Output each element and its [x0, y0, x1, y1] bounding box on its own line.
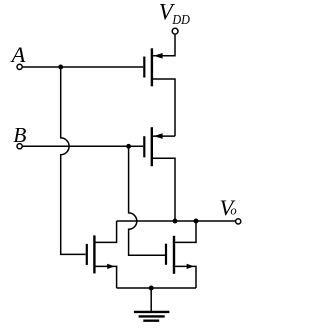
wire: bottom rail (NMOS sources) [117, 287, 196, 289]
transistor Q2 (PMOS, gate B) [144, 127, 175, 221]
wire: input B to PMOS Q2 gate [22, 145, 143, 147]
input terminal B [17, 144, 22, 149]
svg-text:Vo: Vo [220, 195, 237, 220]
node: ground junction [149, 286, 154, 291]
wire: A branch down to NMOS Q3 gate (hops over B wire) [61, 67, 86, 254]
node: Q2 drain to output rail [173, 219, 178, 224]
power terminal VDD [172, 28, 178, 34]
svg-text:VDD: VDD [159, 0, 190, 28]
transistor Q3 (NMOS, gate A) [87, 221, 117, 288]
node: NMOS Q4 drain on output rail [194, 219, 199, 224]
input terminal A [17, 64, 22, 69]
wire: output rail [117, 220, 236, 222]
wire: input A to PMOS Q1 gate [22, 66, 143, 68]
transistor Q1 (PMOS, gate A) [144, 35, 175, 137]
node: junction B branch [126, 144, 131, 149]
transistor Q4 (NMOS, gate B) [166, 221, 196, 288]
ground [134, 288, 170, 321]
output terminal Vo [236, 219, 241, 224]
wire: B branch down to NMOS Q4 gate (hops over output rail) [129, 146, 165, 255]
node: junction A branch [58, 65, 63, 70]
svg-text:A: A [10, 42, 26, 67]
